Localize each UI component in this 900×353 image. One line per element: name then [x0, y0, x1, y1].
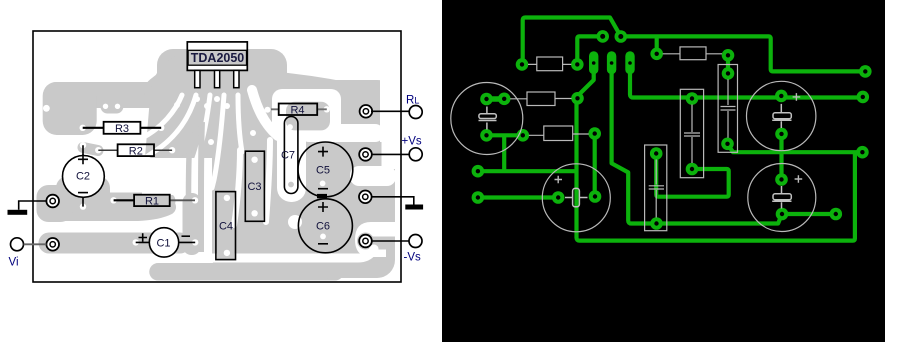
wire: white cut below fan [142, 158, 212, 195]
wire: branch from C2 bottom down to node A [502, 135, 506, 171]
resistor row2 outline [510, 92, 571, 106]
svg-text:C6: C6 [316, 221, 330, 233]
node: C2 bottom pad [480, 129, 493, 142]
wire: -Vs lead [371, 240, 409, 242]
wire: branch down to R4 left pad [655, 36, 659, 53]
wire: ground to R1 band [49, 193, 167, 210]
resistor R2 [98, 144, 172, 157]
wire: right ground lead [371, 197, 414, 205]
svg-text:-Vs: -Vs [404, 252, 422, 264]
capacitor C5 [298, 142, 353, 197]
node: C2 top left pad [480, 93, 493, 106]
wire: copper inside C4 bottom [217, 247, 235, 259]
node: C1 right pad [192, 239, 198, 245]
node: C4 bottom pad [650, 217, 663, 230]
wire: white channel between +Vs and gnd fingers [350, 166, 396, 186]
wire: pour below R1 band [58, 207, 168, 213]
wire: b3 net to C5 top, E2 pad [630, 70, 863, 98]
wire: white channel TDA fan 5 [238, 95, 242, 152]
wire: thin trace f3 to connector [189, 122, 192, 196]
node: E4 pad [830, 208, 843, 221]
wire: Vi to C1 band [49, 233, 180, 254]
capacitor C3 [245, 151, 264, 221]
node: RL terminal [409, 106, 422, 119]
node: row3 right pad [588, 127, 601, 140]
wire: white cut right of +Vs tab [382, 138, 398, 169]
node: Vi terminal [11, 238, 24, 251]
svg-text:C5: C5 [316, 165, 330, 177]
node: TDA pad t1 [596, 30, 609, 43]
node: R4 left pad [265, 107, 271, 113]
resistor R4 outline [663, 47, 722, 60]
capacitor C5 outline (copper view) [747, 81, 816, 150]
node: R4 right pad [324, 106, 330, 112]
node: C7 top pad [722, 67, 735, 80]
node: R1 right pad [192, 197, 198, 203]
wire: white channel above bottom band [60, 249, 374, 258]
node: C7 bottom pad [721, 138, 734, 151]
node: row3 left pad [517, 129, 530, 142]
node: C1 left pad [552, 191, 565, 204]
node: TDA stadium pad b3 [625, 51, 634, 74]
node: -Vs pad [359, 235, 372, 248]
node: C3 top pad [251, 157, 257, 163]
wire: white pocket around R4 [272, 89, 341, 135]
capacitor C2 outline (copper view) [451, 83, 523, 155]
svg-text:R1: R1 [145, 196, 159, 208]
wire: C6 bottom pad to E4 pad [782, 212, 836, 216]
node: C4 top pad [224, 195, 230, 201]
node: C6 top pad [775, 173, 788, 186]
resistor R1 [114, 195, 195, 208]
wire: pad A to b1 vertical [478, 169, 577, 173]
wire: Vi lead [24, 243, 47, 245]
node: TDA pin pad 1 [174, 102, 180, 108]
resistor R4 [271, 104, 327, 117]
node: TDA stadium pad b1 [589, 51, 598, 74]
node: C5 top pad [775, 90, 788, 103]
wire: top-left copper band [56, 82, 158, 108]
wire: R4-C7 copper island [286, 102, 330, 131]
capacitor C3 outline [680, 89, 703, 177]
node: C3 bottom pad [251, 210, 257, 216]
capacitor C6 [298, 194, 352, 253]
wire: white channel right of C3 [266, 140, 270, 222]
wire: band to TDA blob diagonal [160, 64, 196, 92]
capacitor C7 outline [718, 65, 737, 153]
wire: white channel TDA fan 4 [212, 95, 224, 188]
wire: right-side copper blob [302, 80, 395, 278]
node: pad hole top band [43, 105, 50, 112]
capacitor C1 [136, 228, 196, 257]
wire: white channel around C7 [277, 95, 306, 202]
wire: white channel TDA fan 3 [187, 95, 210, 177]
node: C7 top pad [287, 124, 293, 130]
wire: white channel around -Vs pad [355, 222, 396, 257]
wire: R4 right pad to C7 top pad [726, 55, 730, 73]
node: E3 pad [856, 146, 869, 159]
svg-text:RL: RL [406, 95, 419, 107]
wire: connector blob R1R-C1R [183, 193, 202, 255]
wire: left ground lead [19, 201, 47, 210]
wire: white notch left of C6 [288, 215, 302, 229]
capacitor C4 outline [645, 145, 667, 231]
node: C1 left pad [133, 239, 139, 245]
svg-text:C1: C1 [156, 238, 170, 250]
wire: white channel TDA fan 1 [144, 95, 182, 137]
resistor R3 [83, 122, 162, 135]
node: E1 pad [859, 65, 872, 78]
node: TDA pad t2 [615, 30, 628, 43]
wire: white channel right of fan [252, 90, 278, 136]
wire: mid copper blob around C3/C4 [212, 148, 312, 272]
wire: +Vs lead [371, 153, 409, 155]
node: row2 left pad [498, 93, 511, 106]
node: E2 pad [857, 91, 870, 104]
node: R3 left pad [80, 125, 86, 131]
node: pad A [472, 165, 485, 178]
capacitor C7 [281, 117, 298, 194]
board outline [33, 31, 401, 282]
wire: row3 right pad down to C1 right pad [593, 134, 597, 197]
node: row2 right pad [571, 92, 584, 105]
node: R1 left pad [110, 197, 116, 203]
svg-text:R4: R4 [290, 105, 304, 117]
node: R4 right pad [722, 49, 735, 62]
node: RL pad [360, 105, 373, 118]
svg-text:C7: C7 [281, 150, 295, 162]
wire: t1 to row1 right pad [577, 36, 602, 64]
wire: white channel left of C3 [234, 150, 240, 225]
node: TDA pin pad 3 [204, 103, 210, 109]
node: C5 bottom pad [775, 128, 788, 141]
node: row1 right pad [571, 58, 584, 71]
resistor row1 outline [528, 57, 571, 71]
node: R4 left pad [650, 48, 663, 61]
op-amp U1 TDA2050 [187, 42, 247, 88]
node: C2 bottom pad [80, 203, 86, 209]
node: R2 left pad [95, 147, 101, 153]
wire: C3 bottom staircase to C4 top pad [656, 154, 729, 197]
wire: C2 copper blob [56, 176, 110, 213]
node: C3 top pad [686, 92, 699, 105]
wire: TDA right wing to right blob [268, 84, 345, 95]
wire: bottom copper band [158, 263, 335, 281]
node: C5/C6 junction mark [317, 194, 327, 198]
capacitor C6 outline (copper view) [748, 164, 816, 232]
ground left [8, 210, 28, 215]
wire: R2 right pad finger [172, 150, 178, 152]
wire: C7 bottom pad to E3 pad [728, 144, 863, 152]
wire: b2 net to C4 bottom and C6 bottom [612, 70, 782, 224]
ground right [405, 205, 423, 210]
node: +Vs pad [359, 148, 372, 161]
wire: thin trace f4 to bottom band [201, 122, 202, 252]
node: TDA pin pad 2 [194, 96, 200, 102]
node: ground pad right [359, 191, 372, 204]
node: ground pad left [46, 195, 59, 208]
wire: top loop t2 to row1 left pad [523, 18, 621, 65]
wire: C2 top pad pair [487, 96, 505, 102]
capacitor C1 outline (copper view) [542, 164, 610, 232]
svg-text:C2: C2 [76, 171, 90, 183]
wire: b1 net vertical through C1 and bottom rail [577, 71, 855, 241]
svg-text:TDA2050: TDA2050 [191, 51, 245, 65]
node: +Vs terminal [409, 148, 422, 161]
wire: C5 bottom pad to C6 top pad [779, 134, 783, 180]
svg-text:C3: C3 [247, 181, 261, 193]
node: C2 top pad [80, 142, 86, 148]
node: C4 top pad [650, 147, 663, 160]
wire: white channel TDA fan 2 [142, 95, 196, 160]
wire: white cut right of RL tab [380, 74, 397, 142]
svg-text:Vi: Vi [9, 257, 19, 269]
node: TDA stadium pad b2 [607, 51, 616, 74]
board background (copper layout view) [442, 0, 885, 342]
wire: blob under R4 [262, 97, 342, 122]
capacitor C2 [63, 145, 105, 206]
svg-text:R3: R3 [115, 123, 129, 135]
node: R2 right pad [169, 147, 175, 153]
node: pad drill holes [520, 62, 524, 66]
svg-text:+Vs: +Vs [402, 136, 422, 148]
node: row1 left pad [516, 58, 529, 71]
wire: top-left copper blob [43, 82, 97, 135]
node: C7 bottom pad [288, 182, 294, 188]
node: C4 bottom pad [224, 250, 230, 256]
node: via A [250, 130, 256, 136]
resistor row3 outline [529, 126, 589, 141]
wire: R2 left pad blob [83, 148, 98, 151]
wire: TDA fan copper block [145, 50, 287, 190]
wire: t2 right to +V rail and E1 pad [621, 36, 866, 71]
wire: pad B to C1 left pad [478, 195, 558, 199]
node: C3 bottom pad [686, 163, 699, 176]
node: slot pill pad [101, 100, 124, 114]
node: via B [269, 129, 275, 135]
node: via C [208, 139, 214, 145]
wire: copper blob under TDA2050 [157, 49, 287, 99]
node: pad B [472, 191, 485, 204]
node: TDA pin pad 4 [214, 96, 220, 102]
node: Vi pad [46, 238, 59, 251]
wire: C2 bottom pad to row3 left pad [487, 133, 523, 137]
node: C1 right pad [589, 190, 602, 203]
wire: copper island under -Vs pad [357, 233, 374, 250]
wire: bottom band up right side [330, 246, 372, 271]
node: R3 right pad [158, 125, 164, 131]
wire: white channel between RL and +Vs fingers [300, 124, 384, 142]
capacitor C4 [216, 192, 236, 260]
svg-text:R2: R2 [129, 146, 143, 158]
svg-text:C4: C4 [219, 221, 233, 233]
wire: ground pad pour [37, 185, 73, 222]
node: TDA pin pad 5 [224, 103, 230, 109]
node: C6 bottom pad [776, 208, 789, 221]
node: -Vs terminal [409, 235, 422, 248]
wire: RL lead [371, 110, 409, 112]
